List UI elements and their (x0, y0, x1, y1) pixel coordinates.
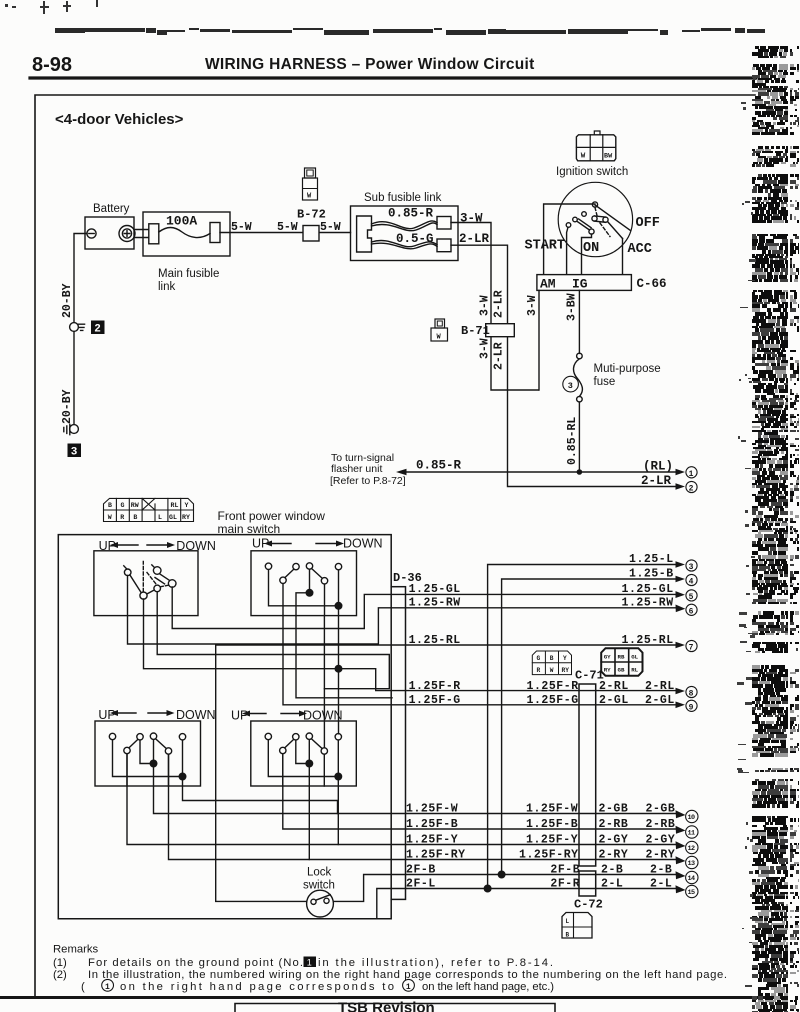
svg-text:(1): (1) (53, 957, 67, 969)
svg-text:2F-R: 2F-R (550, 877, 580, 890)
svg-text:2-GY: 2-GY (646, 833, 676, 846)
junction dot (335, 665, 342, 672)
svg-text:0.85-RL: 0.85-RL (566, 417, 579, 465)
svg-text:2-GL: 2-GL (645, 694, 675, 707)
connector C-71 box (579, 684, 596, 866)
svg-text:1.25-L: 1.25-L (629, 553, 674, 566)
svg-text:10: 10 (688, 814, 695, 822)
remarks text (53, 944, 727, 994)
svg-text:1.25F-B: 1.25F-B (526, 818, 578, 831)
ground 3 (64, 425, 81, 459)
wire 1.25-RL node 7 with lock switch feed (216, 645, 676, 901)
B-71 icon (431, 319, 448, 342)
svg-text:1.25F-R: 1.25F-R (527, 680, 579, 693)
svg-text:1.25F-W: 1.25F-W (526, 802, 578, 815)
svg-text:5-W: 5-W (231, 221, 252, 234)
wire 1.25F-R to node 8 (144, 599, 677, 691)
page header (32, 54, 535, 76)
svg-text:2F-L: 2F-L (406, 877, 436, 890)
svg-text:W: W (550, 667, 554, 674)
C-71 pin table bold (601, 648, 642, 676)
C-71 pin table thin (532, 651, 571, 675)
svg-text:0.85-R: 0.85-R (416, 459, 462, 473)
svg-text:1.25F-RY: 1.25F-RY (406, 848, 466, 861)
svg-text:1.25F-G: 1.25F-G (409, 694, 461, 707)
svg-text:2-L: 2-L (601, 877, 623, 890)
bottom-right dot1 stub (308, 764, 310, 860)
svg-text:1.25F-W: 1.25F-W (406, 802, 458, 815)
header rule (30, 76, 756, 79)
svg-text:RL: RL (631, 667, 638, 674)
wire 0.85-RL (578, 402, 580, 472)
junction dot on 2F-B (498, 871, 505, 878)
svg-text:100A: 100A (166, 214, 197, 229)
svg-text:Muti-purpose: Muti-purpose (594, 363, 661, 375)
svg-text:3-W: 3-W (460, 212, 483, 226)
svg-text:1.25-RW: 1.25-RW (409, 597, 461, 610)
svg-text:BW: BW (604, 152, 613, 160)
wire 1.25F-Y to node 12 (127, 754, 676, 845)
svg-text:1.25F-B: 1.25F-B (406, 818, 458, 831)
svg-text:1.25-B: 1.25-B (629, 568, 674, 581)
wire 1.25-RW to node 6 (128, 576, 677, 645)
svg-text:2-RB: 2-RB (599, 818, 629, 831)
svg-text:0.85-R: 0.85-R (388, 207, 434, 221)
svg-text:W: W (581, 152, 586, 160)
svg-text:C-72: C-72 (574, 898, 603, 912)
connector D-36 box (391, 587, 405, 900)
bottom-left block internals (109, 733, 186, 786)
svg-text:13: 13 (688, 860, 695, 868)
svg-text:2-LR: 2-LR (641, 474, 672, 488)
svg-text:B: B (550, 655, 554, 662)
svg-text:RY: RY (562, 667, 570, 674)
wire 2F-L node 15 (left part drawn with node3 wire) (488, 888, 676, 890)
svg-text:Y: Y (185, 502, 189, 509)
ground point circle 2 (70, 321, 105, 336)
svg-text:1.25F-Y: 1.25F-Y (526, 833, 578, 846)
passenger switch block (top right) box (251, 551, 357, 616)
rear-left switch block (bottom left) box (95, 721, 201, 786)
svg-text:2F-B: 2F-B (406, 863, 436, 876)
svg-text:2F-B: 2F-B (550, 863, 580, 876)
svg-text:AM: AM (540, 277, 556, 292)
main switch outer box (58, 535, 391, 919)
svg-text:20-BY: 20-BY (61, 389, 74, 424)
wire 1.25-B node 4 (502, 579, 676, 875)
top-right block internals (265, 563, 342, 616)
svg-text:2-GB: 2-GB (646, 802, 676, 815)
ignition pivot and contacts (592, 202, 597, 207)
svg-text:on the right hand page corresp: on the right hand page corresponds to (120, 981, 394, 993)
node arrows 3-15 (676, 561, 686, 893)
connector C-66 (537, 275, 632, 291)
switch header bottom-left (98, 708, 215, 722)
svg-text:OFF: OFF (636, 216, 660, 231)
vertical from top-right m2 to bottom-right m2 (323, 616, 325, 748)
connector C-72 box (579, 871, 596, 896)
wire 1.25-L node 3 (377, 565, 676, 919)
svg-text:G: G (537, 655, 541, 662)
switch header top-right (252, 537, 383, 551)
wire to rear-right m2 (157, 592, 389, 689)
svg-text:3: 3 (71, 447, 78, 459)
switch header top-left (99, 539, 216, 553)
wire 3-W from sub link (451, 223, 539, 391)
svg-text:C-66: C-66 (637, 277, 667, 291)
wire 3-W from AM down (538, 290, 540, 390)
svg-text:GY: GY (604, 653, 611, 660)
svg-text:2-RL: 2-RL (645, 680, 675, 693)
bottom-left dot2 branch (183, 777, 338, 814)
svg-text:5: 5 (689, 593, 694, 602)
svg-text:2-RY: 2-RY (646, 848, 676, 861)
wire ACC to C-66 (622, 239, 624, 275)
svg-text:W: W (437, 334, 442, 342)
svg-text:<4-door Vehicles>: <4-door Vehicles> (55, 111, 184, 128)
svg-text:ACC: ACC (628, 242, 652, 257)
svg-text:GL: GL (631, 653, 638, 660)
svg-text:3: 3 (568, 381, 573, 391)
svg-text:W: W (108, 514, 112, 521)
svg-text:R: R (120, 514, 124, 521)
svg-text:1: 1 (689, 470, 694, 479)
svg-text:2-B: 2-B (650, 863, 672, 876)
svg-text:switch: switch (303, 880, 335, 892)
scan noise right edge (752, 46, 799, 1012)
svg-text:1.25-RL: 1.25-RL (622, 634, 674, 647)
svg-text:7: 7 (689, 644, 694, 653)
svg-text:Ignition switch: Ignition switch (556, 166, 628, 178)
master switch block box (driver) (94, 551, 198, 616)
svg-text:1: 1 (406, 983, 411, 992)
svg-text:1.25F-G: 1.25F-G (527, 694, 579, 707)
svg-text:2-RY: 2-RY (599, 848, 629, 861)
svg-text:1.25F-R: 1.25F-R (409, 680, 461, 693)
svg-text:5-W: 5-W (277, 221, 298, 234)
svg-text:1.25-GL: 1.25-GL (409, 583, 461, 596)
svg-text:(2): (2) (53, 969, 67, 981)
connector B-72 (297, 168, 326, 241)
top-right c2 stub down (296, 616, 392, 698)
svg-text:1.25-GL: 1.25-GL (622, 583, 674, 596)
svg-text:2: 2 (94, 324, 101, 336)
svg-text:W: W (307, 193, 312, 201)
svg-text:9: 9 (689, 703, 694, 712)
svg-text:IG: IG (572, 277, 588, 292)
svg-text:3-W: 3-W (479, 338, 492, 359)
svg-text:2-L: 2-L (650, 877, 672, 890)
svg-text:2: 2 (689, 485, 694, 494)
junction dot on 2F-L (484, 885, 491, 892)
svg-text:RL: RL (171, 502, 179, 509)
wire 20-BY lower (73, 332, 75, 425)
node arrow 1 (686, 467, 697, 478)
svg-text:Lock: Lock (307, 867, 332, 879)
connector B-71 (486, 324, 515, 337)
svg-text:B-72: B-72 (297, 208, 326, 222)
wire 1.25-GL to node 5 (172, 587, 676, 629)
svg-text:L: L (158, 514, 162, 521)
svg-text:1.25F-RY: 1.25F-RY (519, 848, 579, 861)
footer rule (0, 996, 782, 999)
svg-text:20-BY: 20-BY (61, 283, 74, 318)
node circles 3-9 (686, 560, 697, 571)
svg-text:11: 11 (688, 830, 695, 838)
svg-text:G: G (121, 502, 125, 509)
vertical from top-right dot to bottom-right c4 (338, 606, 340, 734)
svg-text:1: 1 (105, 983, 110, 992)
svg-text:12: 12 (688, 845, 695, 853)
ignition switch body circle (558, 182, 632, 256)
wire 3-BW from IG down (578, 290, 580, 353)
svg-text:L: L (566, 918, 570, 925)
wire ON to C-66 (582, 234, 592, 275)
svg-text:2-LR: 2-LR (493, 290, 506, 318)
svg-text:Sub fusible link: Sub fusible link (364, 192, 442, 204)
svg-text:14: 14 (688, 875, 695, 883)
svg-text:Remarks: Remarks (53, 944, 99, 956)
svg-text:RY: RY (182, 514, 190, 521)
svg-text:Battery: Battery (93, 203, 130, 215)
svg-text:3-W: 3-W (479, 295, 492, 316)
svg-text:1.25-RW: 1.25-RW (622, 597, 674, 610)
D-36 pin table (104, 498, 194, 521)
TSB revision box (235, 1004, 555, 1012)
svg-text:C-71: C-71 (575, 669, 604, 683)
svg-text:(: ( (81, 981, 85, 993)
wire 1.25F-RY to node 13 (169, 754, 677, 859)
svg-text:1.25F-Y: 1.25F-Y (406, 833, 458, 846)
svg-text:6: 6 (689, 607, 694, 616)
svg-text:B: B (133, 514, 137, 521)
svg-text:15: 15 (688, 889, 695, 897)
svg-text:UP: UP (231, 709, 248, 723)
svg-text:[Refer to P.8-72]: [Refer to P.8-72] (330, 475, 406, 487)
wire 2F-B lock switch to node 14 (334, 875, 676, 902)
svg-text:3-W: 3-W (526, 295, 539, 316)
ignition switch connector icon (576, 131, 615, 161)
svg-text:2-LR: 2-LR (459, 232, 490, 246)
svg-text:UP: UP (98, 708, 115, 722)
node arrow 2 (676, 483, 686, 490)
wire 1.25F-W to node 10 (154, 764, 677, 814)
sub fusible link (351, 192, 459, 261)
svg-text:B: B (108, 502, 112, 509)
svg-text:Front power window: Front power window (218, 509, 326, 523)
wire 1.25F-B to node 11 (283, 754, 676, 829)
svg-text:WIRING HARNESS – Power Window: WIRING HARNESS – Power Window Circuit (205, 56, 535, 73)
svg-text:2-B: 2-B (601, 863, 623, 876)
bottom-right dot2 stub (337, 777, 339, 845)
svg-text:8-98: 8-98 (32, 54, 72, 76)
svg-text:DOWN: DOWN (343, 537, 383, 551)
svg-text:0.5-G: 0.5-G (396, 232, 434, 246)
lock switch (303, 867, 335, 917)
battery (85, 203, 135, 249)
top-left scan marks (5, 0, 98, 14)
wire START to C-66 (567, 227, 568, 274)
svg-text:R: R (537, 667, 541, 674)
svg-text:8: 8 (689, 690, 694, 699)
svg-text:RB: RB (618, 653, 625, 660)
flasher feed wire 0.85-R (406, 471, 676, 473)
svg-text:flasher unit: flasher unit (331, 463, 382, 475)
svg-text:START: START (525, 239, 566, 254)
svg-text:3-BW: 3-BW (566, 293, 579, 321)
svg-text:1: 1 (307, 958, 312, 968)
multi-purpose fuse (577, 353, 583, 359)
svg-text:fuse: fuse (594, 376, 616, 388)
wire name labels (406, 553, 675, 890)
svg-text:Y: Y (563, 655, 567, 662)
svg-text:1.25-RL: 1.25-RL (409, 634, 461, 647)
svg-text:TSB Revision: TSB Revision (338, 1000, 435, 1012)
wire 2-LR from sub link (451, 245, 676, 486)
main fusible link 100A (134, 212, 230, 293)
svg-text:Main fusible: Main fusible (158, 268, 219, 280)
svg-text:B-71: B-71 (461, 324, 490, 338)
node circles 10-15 (686, 810, 698, 822)
master switch contacts (124, 562, 176, 600)
svg-text:DOWN: DOWN (176, 708, 216, 722)
svg-text:(RL): (RL) (643, 460, 673, 474)
svg-text:B: B (566, 932, 570, 939)
svg-text:GB: GB (618, 667, 625, 674)
switch header bottom-right (231, 709, 343, 723)
svg-text:2-LR: 2-LR (493, 342, 506, 370)
svg-text:5-W: 5-W (320, 221, 341, 234)
svg-text:2-GB: 2-GB (599, 802, 629, 815)
svg-text:For details on the ground poin: For details on the ground point (No. (88, 957, 303, 969)
svg-text:2-RB: 2-RB (646, 818, 676, 831)
wire 1.25F-G to node 9 (283, 616, 676, 705)
wire battery negative to ground (74, 234, 87, 322)
svg-text:link: link (158, 281, 176, 293)
svg-text:ON: ON (583, 241, 599, 256)
junction 0.85 (577, 469, 583, 475)
svg-text:RY: RY (604, 667, 611, 674)
svg-text:2-GL: 2-GL (599, 694, 629, 707)
wire 5-W run (220, 232, 351, 234)
bottom-right block internals (265, 733, 342, 786)
svg-text:RW: RW (131, 502, 139, 509)
wire pivot to AM (544, 204, 595, 275)
rear-right switch block (bottom right) box (251, 721, 356, 786)
svg-text:2-GY: 2-GY (599, 833, 629, 846)
svg-text:on the left hand page, etc.): on the left hand page, etc.) (422, 981, 554, 993)
svg-text:4: 4 (689, 578, 694, 587)
svg-text:in the illustration), refer to: in the illustration), refer to P.8-14. (318, 957, 553, 969)
svg-text:3: 3 (689, 563, 694, 572)
svg-text:GL: GL (169, 514, 177, 521)
